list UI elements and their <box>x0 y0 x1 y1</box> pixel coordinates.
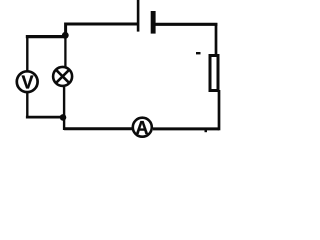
junction (top node, voltmeter/lamp branch) <box>62 32 69 39</box>
wire voltmeter top lead <box>26 36 28 71</box>
battery long plate (positive) <box>137 0 140 32</box>
tick below bottom wire <box>205 130 208 132</box>
dash mark left of resistor <box>196 52 201 54</box>
voltmeter V <box>17 71 38 92</box>
wire corner drop to junction node <box>64 23 67 36</box>
wire top-left horizontal (battery to left branch corner) <box>66 22 138 25</box>
wire top-right horizontal (battery to resistor corner) <box>155 23 217 26</box>
ammeter A <box>133 118 152 138</box>
wire bottom horizontal (lamp corner to ammeter) <box>64 127 132 130</box>
wire lamp top lead <box>64 36 66 68</box>
svg-text:V: V <box>21 73 33 93</box>
svg-text:A: A <box>136 118 149 138</box>
junction (bottom node, voltmeter/lamp branch) <box>60 114 67 121</box>
wire resistor top lead <box>215 23 218 55</box>
wire ammeter to right corner <box>153 127 219 130</box>
lamp (circle with X) <box>53 67 72 86</box>
battery short plate (negative) <box>151 11 156 34</box>
wire bottom-left horizontal (voltmeter to junction) <box>26 116 63 119</box>
wire mid-left horizontal (junction to voltmeter branch) <box>26 35 67 38</box>
resistor (rectangle) <box>210 56 218 91</box>
wire lamp bottom lead <box>63 87 65 130</box>
wire right vertical (corner up to resistor) <box>218 90 221 130</box>
wire voltmeter bottom lead <box>26 93 28 119</box>
